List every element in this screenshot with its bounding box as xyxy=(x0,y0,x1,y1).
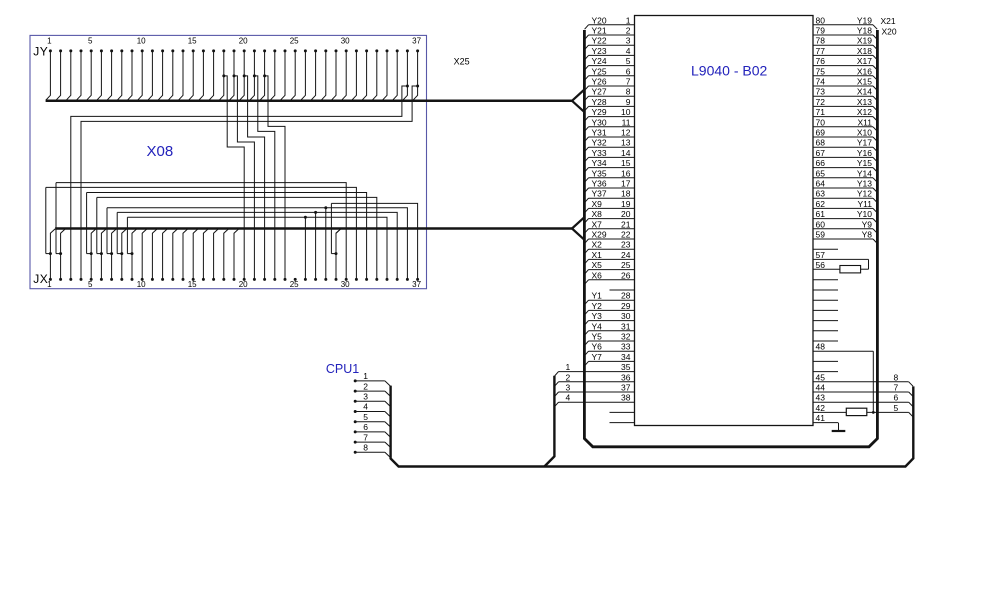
svg-text:5: 5 xyxy=(626,56,631,66)
JY pin 15 xyxy=(192,49,195,52)
JX pin 4 xyxy=(80,278,83,281)
IC pin 28 (Y1) xyxy=(589,299,635,301)
IC pin 11 (Y30) xyxy=(589,126,635,128)
svg-text:2: 2 xyxy=(566,372,571,382)
svg-text:18: 18 xyxy=(621,189,631,199)
JX pin 36 xyxy=(406,278,409,281)
svg-text:63: 63 xyxy=(816,189,826,199)
svg-text:75: 75 xyxy=(816,66,826,76)
IC pin 51 (nc stub) xyxy=(813,320,838,322)
IC pin 70 (X11) xyxy=(813,126,873,128)
svg-text:10: 10 xyxy=(137,280,146,289)
svg-text:Y28: Y28 xyxy=(592,97,607,107)
svg-text:X21: X21 xyxy=(881,16,896,26)
svg-text:77: 77 xyxy=(816,46,826,56)
JX pin 24 xyxy=(284,278,287,281)
JX pin 33 xyxy=(375,278,378,281)
JY pin 31 xyxy=(355,49,358,52)
svg-text:19: 19 xyxy=(621,199,631,209)
JY pin 22 xyxy=(263,49,266,52)
junction JX1 tap xyxy=(49,252,52,255)
svg-text:66: 66 xyxy=(816,158,826,168)
JY pin 9 xyxy=(131,49,134,52)
wire bundle T1 xyxy=(56,183,346,280)
JX pin 9 xyxy=(131,278,134,281)
IC pin 78 (X19) xyxy=(813,44,873,46)
JX pin 5 xyxy=(90,278,93,281)
svg-text:71: 71 xyxy=(816,107,826,117)
IC pin 50 (nc stub) xyxy=(813,330,838,332)
svg-text:3: 3 xyxy=(626,36,631,46)
JX pin 1 xyxy=(49,278,52,281)
IC pin 39 (nc stub) xyxy=(610,411,635,413)
JY pin 10 xyxy=(141,49,144,52)
bus JY fork into IC bus xyxy=(572,90,584,101)
wire bundle T6 xyxy=(117,212,397,279)
JX pin 12 xyxy=(161,278,164,281)
svg-text:Y30: Y30 xyxy=(592,117,607,127)
IC pin 36 (CPU net 2) xyxy=(559,381,635,383)
svg-text:Y3: Y3 xyxy=(592,311,603,321)
JX pin 19 xyxy=(233,278,236,281)
IC pin 15 (Y34) xyxy=(589,167,635,169)
junction JX5 tap xyxy=(90,252,93,255)
svg-text:X29: X29 xyxy=(592,230,607,240)
IC pin 52 (nc stub) xyxy=(813,309,838,311)
JY pin 12 xyxy=(161,49,164,52)
IC pin 4 (Y23) xyxy=(589,54,635,56)
JY pin 2 xyxy=(59,49,62,52)
IC pin 1 (Y20) xyxy=(589,24,635,26)
svg-text:Y8: Y8 xyxy=(862,230,873,240)
svg-text:56: 56 xyxy=(816,260,826,270)
svg-text:Y17: Y17 xyxy=(857,138,872,148)
svg-text:Y12: Y12 xyxy=(857,189,872,199)
IC pin 76 (X17) xyxy=(813,65,873,67)
svg-text:Y6: Y6 xyxy=(592,342,603,352)
svg-text:13: 13 xyxy=(621,138,631,148)
JX pin 7 xyxy=(110,278,113,281)
IC pin 8 (Y27) xyxy=(589,95,635,97)
IC pin 41 to ground xyxy=(813,422,838,424)
svg-text:X7: X7 xyxy=(592,219,603,229)
wire bundle T2 xyxy=(46,187,357,279)
IC pin 25 (X5) xyxy=(589,269,635,271)
svg-text:Y21: Y21 xyxy=(592,26,607,36)
svg-text:10: 10 xyxy=(137,37,146,46)
JX pin 17 xyxy=(212,278,215,281)
svg-text:22: 22 xyxy=(621,230,631,240)
JY pin 17 xyxy=(212,49,215,52)
wire JX29 to JX37 (L29) xyxy=(331,203,417,279)
svg-text:X6: X6 xyxy=(592,270,603,280)
svg-text:21: 21 xyxy=(621,219,631,229)
JX pin 34 xyxy=(386,278,389,281)
svg-text:45: 45 xyxy=(816,372,826,382)
IC pin 9 (Y28) xyxy=(589,105,635,107)
svg-text:20: 20 xyxy=(239,280,248,289)
IC pin 22 (X29) xyxy=(589,238,635,240)
svg-text:34: 34 xyxy=(621,352,631,362)
IC pin 53 (nc stub) xyxy=(813,299,838,301)
IC pin 69 (X10) xyxy=(813,136,873,138)
svg-text:72: 72 xyxy=(816,97,826,107)
IC pin 72 (X13) xyxy=(813,105,873,107)
IC pin 59 (Y8) xyxy=(813,238,873,240)
svg-text:57: 57 xyxy=(816,250,826,260)
IC pin 32 (Y5) xyxy=(589,340,635,342)
JY pin 7 xyxy=(110,49,113,52)
svg-text:JY: JY xyxy=(33,45,48,59)
bus JY (thick) xyxy=(46,100,572,103)
svg-text:42: 42 xyxy=(816,403,826,413)
IC pin 43 (CPU net 6) xyxy=(813,401,909,403)
svg-text:6: 6 xyxy=(626,66,631,76)
svg-text:25: 25 xyxy=(621,260,631,270)
bus JX fork into IC bus xyxy=(572,217,584,228)
svg-text:Y5: Y5 xyxy=(592,332,603,342)
IC pin 66 (Y15) xyxy=(813,167,873,169)
IC pin 68 (Y17) xyxy=(813,146,873,148)
svg-text:1: 1 xyxy=(363,371,368,381)
wire JY18 to JX20 (tap) xyxy=(222,74,225,77)
IC pin 30 (Y3) xyxy=(589,320,635,322)
svg-text:11: 11 xyxy=(622,117,631,127)
IC pin 44 (CPU net 7) xyxy=(813,391,909,393)
svg-text:61: 61 xyxy=(816,209,826,219)
svg-text:25: 25 xyxy=(290,280,299,289)
JY pin 36 xyxy=(406,49,409,52)
svg-text:Y25: Y25 xyxy=(592,66,607,76)
JX pin 13 xyxy=(171,278,174,281)
svg-text:Y32: Y32 xyxy=(592,138,607,148)
JY pin 35 xyxy=(396,49,399,52)
CPU1 pin 3 xyxy=(354,400,357,403)
IC pin 33 (Y6) xyxy=(589,350,635,352)
JX pin 35 xyxy=(396,278,399,281)
wire JY37 to JX4 xyxy=(416,85,419,88)
svg-text:16: 16 xyxy=(621,168,631,178)
IC pin 16 (Y35) xyxy=(589,177,635,179)
JX pin 10 xyxy=(141,278,144,281)
wire bundle T7 xyxy=(127,217,387,279)
svg-text:15: 15 xyxy=(188,280,197,289)
svg-text:X14: X14 xyxy=(857,87,872,97)
svg-text:15: 15 xyxy=(188,37,197,46)
IC pin 24 (X1) xyxy=(589,258,635,260)
IC pin 3 (Y22) xyxy=(589,44,635,46)
CPU1 pin 6 xyxy=(354,430,357,433)
IC pin 29 (Y2) xyxy=(589,309,635,311)
svg-text:41: 41 xyxy=(816,413,826,423)
CPU1 pin 5 xyxy=(354,420,357,423)
IC pin 13 (Y32) xyxy=(589,146,635,148)
svg-text:44: 44 xyxy=(816,383,826,393)
svg-text:2: 2 xyxy=(626,26,631,36)
junction JX9 tap xyxy=(131,252,134,255)
IC pin 17 (Y36) xyxy=(589,187,635,189)
svg-text:78: 78 xyxy=(816,36,826,46)
IC pin 58 (nc stub) xyxy=(813,248,838,250)
svg-text:Y19: Y19 xyxy=(857,15,872,25)
svg-text:3: 3 xyxy=(363,392,368,402)
JX pin 8 xyxy=(120,278,123,281)
JX pin 29 xyxy=(335,278,338,281)
svg-text:43: 43 xyxy=(816,393,826,403)
CPU1 pin 4 xyxy=(354,410,357,413)
JX pin 3 xyxy=(69,278,72,281)
JY pin 27 xyxy=(314,49,317,52)
IC pin 61 (Y10) xyxy=(813,218,873,220)
svg-text:CPU1: CPU1 xyxy=(326,362,359,376)
IC pin 2 (Y21) xyxy=(589,34,635,36)
JY pin 28 xyxy=(324,49,327,52)
IC pin 10 (Y29) xyxy=(589,116,635,118)
JX pin 28 xyxy=(324,278,327,281)
JY pin 4 xyxy=(80,49,83,52)
svg-text:32: 32 xyxy=(621,332,631,342)
svg-text:64: 64 xyxy=(816,179,826,189)
svg-text:14: 14 xyxy=(621,148,631,158)
junction JX6 tap xyxy=(100,252,103,255)
IC pin 56 with resistor R1 xyxy=(813,268,840,270)
svg-text:70: 70 xyxy=(816,117,826,127)
svg-text:Y2: Y2 xyxy=(592,301,603,311)
svg-text:X18: X18 xyxy=(857,46,872,56)
JY pin 11 xyxy=(151,49,154,52)
IC pin 74 (X15) xyxy=(813,85,873,87)
svg-text:Y1: Y1 xyxy=(592,291,603,301)
JY pin 34 xyxy=(386,49,389,52)
svg-text:Y14: Y14 xyxy=(857,168,872,178)
svg-text:X13: X13 xyxy=(857,97,872,107)
svg-text:X2: X2 xyxy=(592,240,603,250)
svg-text:X19: X19 xyxy=(857,36,872,46)
svg-text:69: 69 xyxy=(816,128,826,138)
svg-text:30: 30 xyxy=(621,311,631,321)
JY pin 30 xyxy=(345,49,348,52)
svg-text:25: 25 xyxy=(290,37,299,46)
svg-text:Y4: Y4 xyxy=(592,321,603,331)
IC pin 48 wire to pin 42 net xyxy=(813,350,873,352)
IC pin 57 xyxy=(813,258,869,260)
svg-text:X25: X25 xyxy=(454,57,470,67)
junction JX7 tap xyxy=(110,252,113,255)
IC pin 67 (Y16) xyxy=(813,156,873,158)
svg-text:79: 79 xyxy=(816,26,826,36)
svg-text:37: 37 xyxy=(412,37,421,46)
svg-text:4: 4 xyxy=(626,46,631,56)
ground xyxy=(838,423,840,431)
JY pin 8 xyxy=(120,49,123,52)
svg-text:60: 60 xyxy=(816,219,826,229)
svg-text:6: 6 xyxy=(894,393,899,403)
junction JX27 on T6 xyxy=(314,211,317,214)
IC U1 L9040-B02 body xyxy=(635,16,814,426)
JY pin 37 xyxy=(416,49,419,52)
svg-text:68: 68 xyxy=(816,138,826,148)
svg-text:X15: X15 xyxy=(857,77,872,87)
svg-text:23: 23 xyxy=(621,240,631,250)
svg-text:7: 7 xyxy=(626,77,631,87)
svg-text:3: 3 xyxy=(566,383,571,393)
junction JX26 on T7 xyxy=(304,216,307,219)
IC pin 12 (Y31) xyxy=(589,136,635,138)
svg-text:1: 1 xyxy=(626,15,631,25)
svg-text:30: 30 xyxy=(341,280,350,289)
wire JY19 to JX21 (tap) xyxy=(233,74,236,77)
svg-text:Y16: Y16 xyxy=(857,148,872,158)
svg-text:Y7: Y7 xyxy=(592,352,603,362)
svg-text:38: 38 xyxy=(621,393,631,403)
wire bundle T3 xyxy=(87,193,367,280)
IC pin 34 (Y7) xyxy=(589,360,635,362)
svg-text:X9: X9 xyxy=(592,199,603,209)
svg-text:31: 31 xyxy=(621,321,631,331)
wire bundle T4 xyxy=(97,197,377,279)
svg-text:Y9: Y9 xyxy=(862,219,873,229)
JX pin 2 xyxy=(59,278,62,281)
IC pin 18 (Y37) xyxy=(589,197,635,199)
svg-text:26: 26 xyxy=(621,270,631,280)
IC pin 47 (nc stub) xyxy=(813,360,838,362)
IC pin 37 (CPU net 3) xyxy=(559,391,635,393)
JY pin 23 xyxy=(273,49,276,52)
wire JY21 to JX23 (tap) xyxy=(253,74,256,77)
JY pin 1 xyxy=(49,49,52,52)
IC pin 54 (nc stub) xyxy=(813,289,838,291)
JX pin 37 xyxy=(416,278,419,281)
junction JX28 on T5 xyxy=(324,206,327,209)
svg-text:24: 24 xyxy=(621,250,631,260)
svg-text:Y35: Y35 xyxy=(592,168,607,178)
JX pin 11 xyxy=(151,278,154,281)
IC pin 6 (Y25) xyxy=(589,75,635,77)
svg-text:8: 8 xyxy=(626,87,631,97)
svg-text:59: 59 xyxy=(816,230,826,240)
IC pin 31 (Y4) xyxy=(589,330,635,332)
connector X08 border xyxy=(30,35,427,288)
JY pin 21 xyxy=(253,49,256,52)
JX pin 18 xyxy=(222,278,225,281)
svg-text:Y23: Y23 xyxy=(592,46,607,56)
svg-text:28: 28 xyxy=(621,291,631,301)
svg-text:29: 29 xyxy=(621,301,631,311)
svg-text:36: 36 xyxy=(621,372,631,382)
svg-text:1: 1 xyxy=(47,37,52,46)
IC pin 55 (nc stub) xyxy=(813,279,838,281)
svg-text:Y36: Y36 xyxy=(592,179,607,189)
IC pin 20 (X8) xyxy=(589,218,635,220)
svg-text:8: 8 xyxy=(894,372,899,382)
svg-text:4: 4 xyxy=(363,402,368,412)
svg-text:Y29: Y29 xyxy=(592,107,607,117)
svg-text:37: 37 xyxy=(621,383,631,393)
IC pin 63 (Y12) xyxy=(813,197,873,199)
IC pin 40 (nc stub) xyxy=(610,422,635,424)
JY pin 25 xyxy=(294,49,297,52)
svg-text:7: 7 xyxy=(894,383,899,393)
CPU1 pin 7 xyxy=(354,441,357,444)
wire JY36 to JX3 xyxy=(406,85,409,88)
IC pin 14 (Y33) xyxy=(589,156,635,158)
svg-text:33: 33 xyxy=(621,342,631,352)
svg-text:X20: X20 xyxy=(882,26,897,36)
JX pin 21 xyxy=(253,278,256,281)
svg-text:5: 5 xyxy=(88,37,93,46)
JY pin 24 xyxy=(284,49,287,52)
JY pin 33 xyxy=(375,49,378,52)
IC pin 23 (X2) xyxy=(589,248,635,250)
svg-text:Y26: Y26 xyxy=(592,77,607,87)
JY pin 29 xyxy=(335,49,338,52)
JY pin 5 xyxy=(90,49,93,52)
svg-text:JX: JX xyxy=(33,272,48,286)
svg-text:10: 10 xyxy=(621,107,631,117)
svg-text:Y31: Y31 xyxy=(592,128,607,138)
svg-text:Y15: Y15 xyxy=(857,158,872,168)
JX pin 15 xyxy=(192,278,195,281)
svg-text:Y27: Y27 xyxy=(592,87,607,97)
svg-text:1: 1 xyxy=(566,362,571,372)
JX pin 14 xyxy=(182,278,185,281)
IC pin 21 (X7) xyxy=(589,228,635,230)
IC pin 65 (Y14) xyxy=(813,177,873,179)
IC pin 45 (CPU net 8) xyxy=(813,381,909,383)
svg-text:35: 35 xyxy=(621,362,631,372)
CPU1 bus branch to IC pins 35-38 xyxy=(544,376,554,467)
IC pin 62 (Y11) xyxy=(813,207,873,209)
svg-text:65: 65 xyxy=(816,168,826,178)
svg-text:Y34: Y34 xyxy=(592,158,607,168)
JX pin 26 xyxy=(304,278,307,281)
JY pin 32 xyxy=(365,49,368,52)
svg-text:X10: X10 xyxy=(857,128,872,138)
IC pin 7 (Y26) xyxy=(589,85,635,87)
JY pin 20 xyxy=(243,49,246,52)
JY pin 6 xyxy=(100,49,103,52)
IC pin 19 (X9) xyxy=(589,207,635,209)
JY pin 19 xyxy=(233,49,236,52)
svg-text:L9040 - B02: L9040 - B02 xyxy=(691,63,767,79)
wire bundle T5 xyxy=(107,208,407,280)
svg-text:62: 62 xyxy=(816,199,826,209)
wire JY20 to JX22 (tap) xyxy=(243,74,246,77)
JY pin 26 xyxy=(304,49,307,52)
svg-text:20: 20 xyxy=(621,209,631,219)
IC pin 46 (nc stub) xyxy=(813,371,838,373)
JX pin 30 xyxy=(345,278,348,281)
svg-text:Y13: Y13 xyxy=(857,179,872,189)
IC pin 64 (Y13) xyxy=(813,187,873,189)
svg-text:X8: X8 xyxy=(592,209,603,219)
svg-text:7: 7 xyxy=(363,432,368,442)
JX pin 20 xyxy=(243,278,246,281)
IC pin 75 (X16) xyxy=(813,75,873,77)
IC pin 5 (Y24) xyxy=(589,65,635,67)
IC pin 27 (nc stub) xyxy=(610,289,635,291)
JY pin 14 xyxy=(182,49,185,52)
svg-text:8: 8 xyxy=(363,443,368,453)
svg-text:Y33: Y33 xyxy=(592,148,607,158)
JX pin 29 riser and tap xyxy=(336,229,341,280)
IC pin 80 (Y19) xyxy=(813,24,873,26)
IC pin 35 (CPU net 1) xyxy=(559,371,635,373)
svg-text:X16: X16 xyxy=(857,66,872,76)
svg-text:20: 20 xyxy=(239,37,248,46)
svg-text:X11: X11 xyxy=(858,117,873,127)
svg-text:Y20: Y20 xyxy=(592,15,607,25)
